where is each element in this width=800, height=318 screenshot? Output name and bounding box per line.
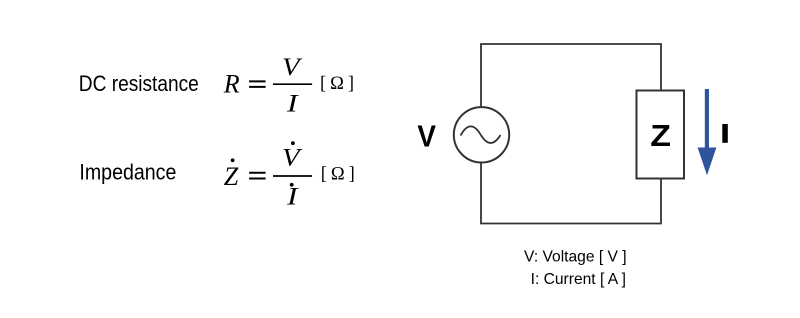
impedance Z box: [637, 91, 685, 179]
svg-text:R: R: [223, 70, 240, 99]
svg-text:DC resistance: DC resistance: [79, 71, 199, 96]
svg-text:V: V: [282, 145, 303, 172]
ac source V: [454, 107, 509, 162]
svg-text:V: Voltage [ V ]: V: Voltage [ V ]: [524, 249, 627, 266]
current arrow I: [698, 89, 717, 175]
label I: [722, 124, 728, 143]
svg-text:[Ω]: [Ω]: [321, 165, 359, 185]
svg-text:I: Current [ A ]: I: Current [ A ]: [531, 271, 626, 288]
svg-text:I: I: [286, 183, 300, 210]
svg-text:I: I: [286, 91, 300, 118]
svg-text:Z: Z: [224, 162, 239, 191]
svg-text:Z: Z: [650, 119, 671, 153]
svg-text:V: V: [282, 54, 303, 81]
wire bottom: [481, 162, 661, 224]
formula: Zdot = Vdot/Idot [ohm]: [224, 141, 359, 210]
svg-text:[Ω]: [Ω]: [320, 74, 358, 94]
wire top: [481, 44, 661, 107]
formula: R = V/I [ohm]: [223, 54, 358, 118]
svg-text:V: V: [417, 118, 436, 153]
svg-text:Impedance: Impedance: [79, 160, 176, 185]
